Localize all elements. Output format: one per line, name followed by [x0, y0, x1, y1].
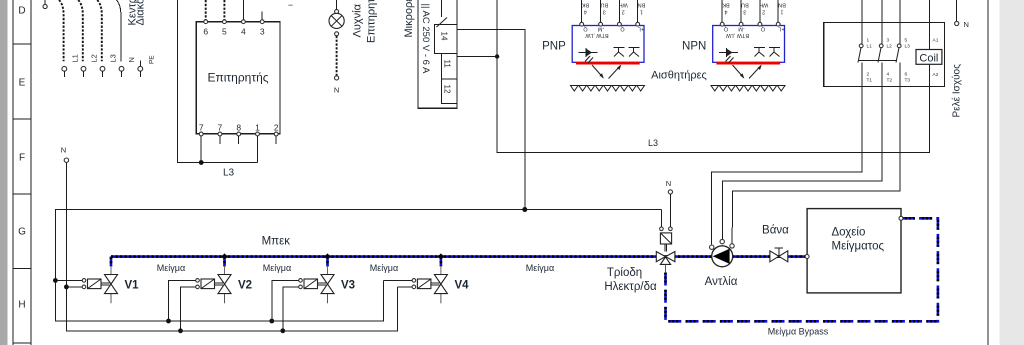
- svg-text:1: 1: [640, 9, 643, 15]
- wire from top to monitor pins 7/1: [177, 0, 257, 163]
- svg-text:4: 4: [584, 9, 587, 15]
- solenoid valve V1: [82, 257, 117, 304]
- relay K1 AC 250 V - 6 A block: [418, 0, 457, 108]
- V1 supply wires: [53, 278, 82, 289]
- pole 2 labels: [887, 38, 893, 84]
- svg-text:BTW ,LW: BTW ,LW: [585, 32, 609, 38]
- label Λυχνία Επιτηρητή: [352, 0, 378, 43]
- label Τρίοδη Ηλεκτρ/δα: [604, 267, 657, 293]
- right sheet border: [987, 0, 989, 345]
- svg-text:L1: L1: [867, 44, 873, 50]
- svg-text:L3: L3: [648, 138, 658, 148]
- junction pin11/L3 riser: [495, 54, 499, 58]
- wire T1 to pump: [712, 86, 862, 244]
- svg-text:D: D: [18, 6, 25, 17]
- svg-text:|| AC 250 V - 6 A: || AC 250 V - 6 A: [420, 4, 431, 75]
- N terminal for three-way valve: [666, 179, 673, 227]
- PNP pin labels (inverted): [582, 2, 646, 15]
- svg-text:N: N: [334, 86, 339, 95]
- svg-text:Διακόπτης: Διακόπτης: [135, 0, 147, 26]
- svg-text:6: 6: [203, 27, 208, 37]
- PNP target hatch triangles: [571, 86, 645, 92]
- svg-text:7: 7: [218, 123, 223, 133]
- solenoid valve V2: [196, 257, 231, 304]
- svg-text:Επιτηρητής: Επιτηρητής: [207, 71, 268, 85]
- svg-text:V3: V3: [341, 280, 355, 292]
- svg-text:Βάνα: Βάνα: [762, 225, 789, 237]
- svg-text:T2: T2: [887, 78, 893, 84]
- svg-text:E: E: [19, 78, 26, 89]
- svg-text:8: 8: [236, 123, 241, 133]
- svg-text:-M: -M: [597, 26, 604, 32]
- svg-text:N: N: [666, 179, 671, 188]
- pin 8: [236, 123, 241, 144]
- tank inlet terminal: [805, 255, 809, 259]
- junction bottom bus feed: [522, 207, 527, 212]
- svg-text:6: 6: [905, 72, 908, 78]
- contactor pole 1: [858, 0, 863, 86]
- svg-text:V4: V4: [455, 280, 470, 292]
- pin 5: [222, 0, 227, 37]
- node V4: [438, 253, 444, 259]
- svg-text:N: N: [964, 20, 969, 29]
- terminal stub top-left: [43, 0, 47, 9]
- pole 3 labels: [905, 38, 911, 84]
- svg-text:H: H: [18, 300, 25, 311]
- relay internal contact: [437, 0, 448, 27]
- three-way valve bottom stem: [665, 264, 667, 273]
- svg-text:12: 12: [442, 85, 451, 94]
- relay pin box 12: [441, 79, 457, 103]
- blue bypass line: [666, 218, 938, 321]
- svg-text:4: 4: [887, 72, 890, 78]
- three-way valve terminals: [660, 210, 673, 231]
- right page-edge gray area: [1000, 0, 1024, 345]
- node V3: [324, 253, 330, 259]
- PNP pins: [580, 0, 640, 26]
- main switch pole L3: [97, 0, 105, 77]
- V2 supply wires: [166, 280, 195, 333]
- svg-text:L3: L3: [905, 44, 911, 50]
- mixture tank Δοχείο Μείγματος: [807, 209, 901, 293]
- main switch pole L1: [59, 0, 67, 77]
- svg-text:Μείγμα Bypass: Μείγμα Bypass: [768, 327, 829, 337]
- svg-text:PE: PE: [148, 55, 155, 64]
- svg-text:3: 3: [603, 9, 606, 15]
- wire T3 to pump: [732, 86, 900, 243]
- three-way valve solenoid: [660, 233, 671, 252]
- pin 6: [203, 0, 208, 37]
- pin 3: [260, 12, 265, 37]
- svg-text:V2: V2: [238, 280, 252, 292]
- svg-text:L2: L2: [887, 44, 893, 50]
- svg-text:Μείγματος: Μείγματος: [832, 241, 885, 253]
- svg-text:2: 2: [622, 9, 625, 15]
- svg-text:Μείγμα: Μείγμα: [263, 263, 291, 273]
- svg-text:+L: +L: [638, 26, 644, 32]
- svg-text:Μείγμα: Μείγμα: [157, 263, 185, 273]
- sensor PNP block: [571, 0, 646, 91]
- pin 2: [274, 123, 279, 144]
- svg-text:T1: T1: [867, 78, 873, 84]
- svg-text:G: G: [18, 227, 26, 238]
- svg-text:Coil: Coil: [919, 53, 938, 65]
- wire from pin 11 to L3 riser: [457, 56, 497, 58]
- L3 riser and L3 bus to coil: [497, 0, 929, 153]
- frame row-label column: [13, 0, 31, 345]
- solenoid valve V3: [299, 257, 334, 304]
- wire from pin 14 to bottom bus: [457, 30, 525, 210]
- contactor pole 3: [896, 0, 901, 86]
- svg-text:PNP: PNP: [542, 41, 566, 53]
- svg-text:Ηλεκτρ/δα: Ηλεκτρ/δα: [604, 281, 657, 293]
- svg-text:Λυχνία: Λυχνία: [352, 3, 364, 37]
- svg-text:2: 2: [867, 72, 870, 78]
- tank bypass terminal: [899, 216, 903, 220]
- contactor K2 box: [824, 22, 945, 86]
- V4 supply wires: [383, 280, 412, 287]
- wire T2 to pump: [722, 86, 882, 239]
- hand valve Βάνα: [770, 248, 788, 262]
- svg-text:Επιτηρητή: Επιτηρητή: [366, 0, 378, 43]
- svg-text:−: −: [288, 0, 293, 10]
- svg-text:Αισθητήρες: Αισθητήρες: [651, 70, 707, 82]
- svg-text:14: 14: [440, 32, 449, 41]
- svg-text:3: 3: [260, 27, 265, 37]
- relay pin box 14: [435, 24, 457, 53]
- N terminal mid-left: [61, 146, 69, 163]
- svg-text:L2: L2: [90, 54, 99, 62]
- indicator lamp H1: [329, 0, 344, 36]
- svg-text:Q: Q: [620, 26, 625, 32]
- svg-text:N: N: [127, 57, 136, 62]
- pin 1: [255, 123, 260, 163]
- pump terminals: [710, 239, 735, 249]
- svg-text:F: F: [19, 153, 25, 164]
- svg-text:BU: BU: [601, 2, 609, 8]
- svg-text:Μείγμα: Μείγμα: [526, 263, 554, 273]
- pump Αντλία: [712, 246, 733, 267]
- svg-text:Μείγμα: Μείγμα: [370, 263, 398, 273]
- svg-text:A1: A1: [933, 38, 939, 44]
- N terminal top right: [955, 0, 969, 29]
- svg-text:Δοχείο: Δοχείο: [832, 227, 866, 239]
- svg-text:11: 11: [442, 60, 451, 69]
- svg-text:3: 3: [887, 38, 890, 44]
- node V2: [221, 253, 227, 259]
- svg-text:T3: T3: [905, 78, 911, 84]
- svg-text:Q: Q: [583, 26, 588, 32]
- pole 1 labels: [867, 38, 873, 84]
- svg-text:Ρελέ Ισχύος: Ρελέ Ισχύος: [951, 64, 963, 118]
- svg-text:7: 7: [199, 123, 204, 133]
- blue mixture main line: [111, 255, 807, 258]
- N bus to valves: [66, 162, 397, 330]
- contactor pole 2: [878, 0, 883, 86]
- PNP beam arrows: [592, 65, 621, 79]
- terminal PE: [138, 61, 143, 78]
- top supply bus to valves: [55, 210, 661, 322]
- svg-text:4: 4: [241, 27, 246, 37]
- svg-text:V1: V1: [125, 280, 140, 292]
- svg-text:BN: BN: [638, 2, 646, 8]
- sensor NPN block (copy of PNP): [711, 0, 786, 91]
- coil wire A1: [929, 0, 931, 50]
- svg-text:5: 5: [905, 38, 908, 44]
- label Κεντρικός Διακόπτης (cut at top): [127, 0, 147, 26]
- left page-edge gray strip: [0, 0, 8, 345]
- svg-text:5: 5: [222, 27, 227, 37]
- svg-text:1: 1: [255, 123, 260, 133]
- main switch pole N: [117, 0, 124, 77]
- svg-text:2: 2: [274, 123, 279, 133]
- svg-text:Μπεκ: Μπεκ: [262, 236, 291, 248]
- svg-text:WH: WH: [619, 2, 628, 8]
- PNP phototransistor symbols: [579, 48, 640, 64]
- svg-text:1: 1: [867, 38, 870, 44]
- junction at pin7 wire: [199, 160, 204, 165]
- contactor linkage: [859, 60, 898, 62]
- V3 supply wires: [269, 280, 298, 333]
- svg-text:BK: BK: [582, 2, 590, 8]
- coil terminal labels: [933, 38, 939, 79]
- svg-text:N: N: [61, 146, 66, 155]
- three-way valve body: [656, 252, 675, 265]
- svg-text:Τρίοδη: Τρίοδη: [607, 267, 642, 279]
- PNP internal labels (inverted): [583, 26, 645, 39]
- solenoid valve V4: [412, 257, 447, 304]
- svg-text:L1: L1: [71, 54, 80, 62]
- lamp N wire: [334, 36, 339, 95]
- pin 7a: [199, 123, 204, 163]
- svg-text:NPN: NPN: [682, 41, 706, 53]
- svg-text:L3: L3: [109, 54, 118, 62]
- svg-text:Αντλία: Αντλία: [705, 276, 738, 288]
- coil box: [916, 50, 942, 65]
- node feed from relay: [522, 207, 527, 212]
- monitor relay U1 Επιτηρητής box: [196, 22, 280, 134]
- svg-text:L3: L3: [223, 168, 235, 179]
- pin 7b: [218, 123, 223, 144]
- relay pin box 11: [441, 53, 457, 79]
- svg-text:A2: A2: [933, 72, 939, 78]
- pin 4: [241, 0, 246, 37]
- svg-text:Μικρορελέ: Μικρορελέ: [403, 0, 415, 38]
- main switch pole L2: [78, 0, 86, 77]
